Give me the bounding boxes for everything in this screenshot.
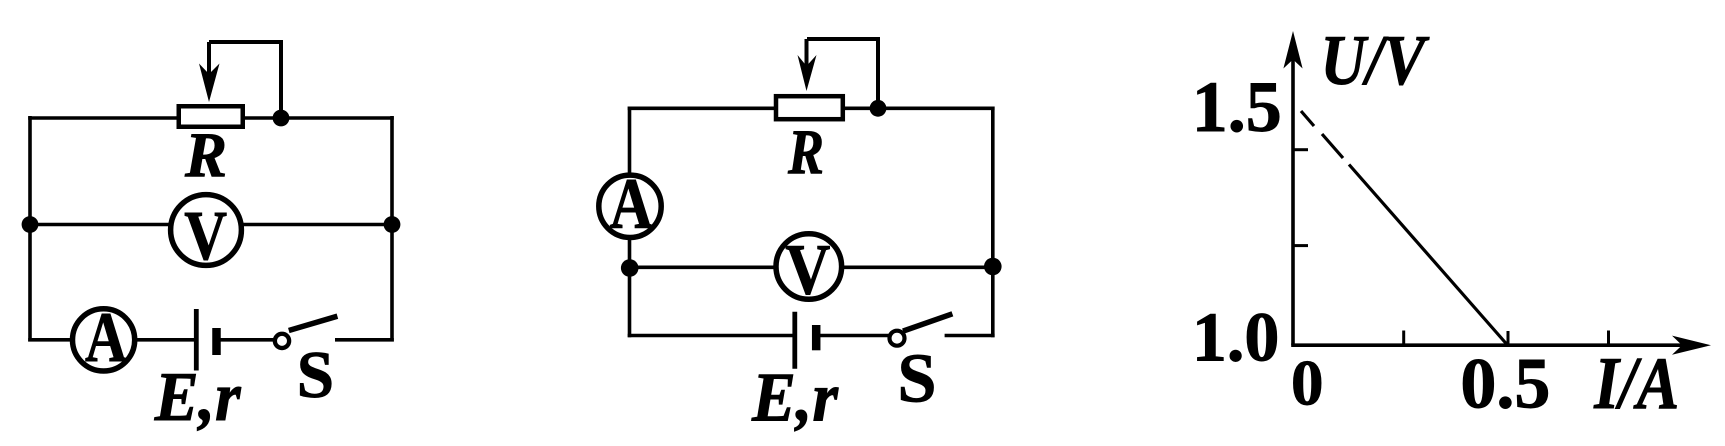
circuit 2: switch S lever xyxy=(903,314,952,331)
circuit 1: wire top, left segment to rheostat xyxy=(28,116,178,120)
circuit 1: junction dot middle-right xyxy=(384,216,401,233)
circuit 2: rheostat wiper arrowhead xyxy=(798,55,817,91)
circuit 1: battery E,r long plate xyxy=(194,309,199,371)
circuit 1: wire battery to switch xyxy=(217,338,277,342)
circuit 2: ammeter A body xyxy=(599,175,661,237)
svg-text:I/A: I/A xyxy=(1593,343,1679,425)
svg-text:V: V xyxy=(184,198,227,275)
svg-text:A: A xyxy=(610,164,653,244)
circuit 2: voltmeter V body xyxy=(776,234,842,300)
circuit 2: wire top, left segment xyxy=(628,107,775,111)
graph: U-I line solid xyxy=(1349,165,1507,345)
svg-text:1.0: 1.0 xyxy=(1192,300,1280,377)
circuit 2: wire top, right segment xyxy=(843,107,995,111)
circuit 1: junction dot middle-left xyxy=(22,216,39,233)
graph: y tick 1.2 xyxy=(1293,244,1308,247)
circuit 2: battery E,r long plate xyxy=(792,312,797,369)
circuit 1: switch S lever xyxy=(289,316,338,330)
svg-text:A: A xyxy=(85,299,127,377)
circuit 1: rheostat R body (resistor box) xyxy=(179,106,243,127)
graph: x tick 0.5 xyxy=(1507,331,1510,345)
circuit 1: voltmeter V body xyxy=(171,195,242,266)
graph: x tick 0.25 xyxy=(1402,331,1405,346)
svg-text:R: R xyxy=(184,120,227,190)
svg-text:0.5: 0.5 xyxy=(1460,344,1550,424)
circuit 2: wire left vertical lower xyxy=(628,234,632,337)
circuit 2: wire right vertical xyxy=(991,107,995,338)
graph: y axis xyxy=(1291,40,1295,345)
graph: dashed extrapolation segment 1 xyxy=(1301,111,1314,126)
svg-text:0: 0 xyxy=(1291,347,1324,419)
circuit 2: junction dot middle-left xyxy=(621,259,639,277)
circuit 1: battery E,r short plate xyxy=(212,328,221,355)
circuit 1: switch S pivot xyxy=(275,334,289,348)
circuit 2: wire battery to switch xyxy=(816,334,890,338)
circuit 1: wire right vertical xyxy=(390,116,394,342)
circuit 2: rheostat tap loop wire xyxy=(807,39,878,108)
circuit 2: switch S pivot xyxy=(890,331,905,346)
graph: x axis xyxy=(1291,343,1702,347)
circuit 2: wire bottom, left segment xyxy=(628,334,793,338)
graph: x tick 0.75 xyxy=(1607,331,1610,346)
circuit 1: ammeter A body xyxy=(73,309,135,371)
svg-text:R: R xyxy=(787,117,824,187)
circuit 2: junction dot middle-right xyxy=(984,258,1002,276)
circuit 1: wire bottom, left segment xyxy=(28,338,194,342)
circuit 1: wire middle (voltmeter branch) xyxy=(30,223,392,227)
circuit 1: wire switch to right corner xyxy=(335,338,394,342)
svg-text:S: S xyxy=(297,338,334,412)
svg-text:U/V: U/V xyxy=(1321,22,1431,100)
svg-text:E,r: E,r xyxy=(154,359,242,436)
svg-text:E,r: E,r xyxy=(751,359,839,436)
svg-text:S: S xyxy=(898,340,937,417)
circuit 2: rheostat wiper arrow shaft xyxy=(805,39,809,68)
circuit 2: wire middle (voltmeter branch) xyxy=(630,265,993,269)
graph: dashed extrapolation segment 2 xyxy=(1322,134,1343,158)
graph: y axis arrowhead xyxy=(1283,31,1302,69)
circuit 1: rheostat wiper arrow shaft xyxy=(207,42,211,76)
graph: y tick 1.4 xyxy=(1293,148,1308,151)
circuit 2: battery E,r short plate xyxy=(812,325,821,350)
circuit 1 (left): wire left vertical xyxy=(28,116,32,342)
circuit 2: wire switch to right corner xyxy=(945,334,995,338)
svg-text:V: V xyxy=(785,229,830,309)
circuit 2: rheostat R body (resistor box) xyxy=(776,96,843,119)
circuit 1: wire top, right segment from rheostat xyxy=(243,116,394,120)
graph: x axis arrowhead xyxy=(1672,336,1711,355)
circuit 1: junction dot at tap xyxy=(273,110,290,127)
circuit 1: rheostat wiper arrowhead xyxy=(199,64,220,103)
circuit 2: junction dot at tap xyxy=(870,100,887,117)
svg-text:1.5: 1.5 xyxy=(1192,67,1282,147)
circuit 1: rheostat tap loop wire xyxy=(209,42,281,118)
circuit 2 (middle): wire left vertical upper xyxy=(628,107,632,179)
